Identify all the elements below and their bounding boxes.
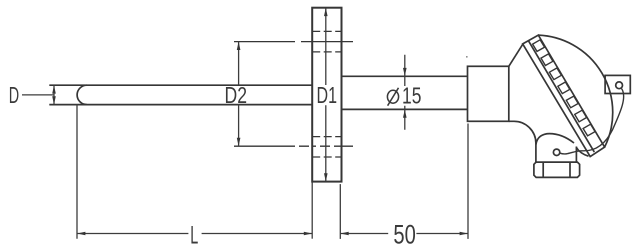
- 50 dimension line: [340, 233, 468, 235]
- svg-text:D2: D2: [225, 82, 248, 108]
- gland nut right flat: [569, 162, 571, 177]
- cap strip (lid) outline: [523, 35, 605, 157]
- bolt hole bottom edge (hidden line, lower hole): [312, 156, 341, 158]
- L extension line (flange left edge): [311, 182, 313, 238]
- neck tube top edge: [342, 75, 468, 77]
- bolt hole centerline (lower): [234, 145, 353, 147]
- arrow D1 bottom: [324, 173, 328, 181]
- outlet shoulder: [536, 134, 574, 145]
- arrow Ø15 top (outside): [403, 68, 407, 76]
- L extension line (probe tip): [76, 104, 78, 239]
- L dimension line: [77, 233, 312, 235]
- diameter symbol Ø: [387, 88, 398, 106]
- head top diagonal: [509, 44, 523, 66]
- outlet screw: [553, 149, 559, 155]
- svg-text:D1: D1: [317, 82, 338, 108]
- arrow D bottom: [52, 96, 56, 104]
- outlet right edge: [575, 147, 577, 163]
- outlet right fillet: [576, 148, 588, 157]
- svg-text:L: L: [190, 222, 198, 250]
- dimension D2 line: [238, 42, 240, 147]
- dimension D line: [53, 85, 55, 104]
- bolt hole centerline (upper): [234, 41, 353, 43]
- bolt hole top edge (hidden line, lower hole): [312, 136, 341, 138]
- cap strip terminal squares: [533, 40, 596, 136]
- tab (lid screw lug): [605, 75, 630, 93]
- arrow D2 bottom: [237, 138, 241, 146]
- probe tube bottom edge (with D extension): [49, 104, 312, 106]
- chain curve: [560, 89, 623, 154]
- 50 extension line (flange right): [339, 184, 341, 239]
- bolt hole bottom edge (hidden line, upper hole): [312, 51, 341, 53]
- head dome: [538, 35, 612, 147]
- probe tube top edge (with D extension): [49, 84, 312, 86]
- head boss: [468, 66, 509, 121]
- arrow 50 right: [460, 232, 468, 236]
- elbow fillet (boss to outlet): [509, 121, 536, 143]
- svg-text:D: D: [9, 82, 19, 108]
- gland nut left flat: [542, 162, 544, 177]
- dimension Ø15 line: [404, 55, 406, 130]
- neck tube bottom edge: [342, 108, 468, 110]
- tab screw: [616, 82, 623, 89]
- probe tube rounded tip: [77, 85, 87, 104]
- bolt hole top edge (hidden line, upper hole): [312, 30, 341, 32]
- outlet left edge: [535, 143, 537, 163]
- arrow L right: [304, 232, 312, 236]
- arrow Ø15 bottom (outside): [403, 109, 407, 117]
- dimension D leader: [22, 94, 54, 96]
- arrow D top: [52, 85, 56, 93]
- arrow D1 top: [324, 8, 328, 16]
- stray mark (artifact in source): [466, 56, 468, 58]
- arrow 50 left: [340, 232, 348, 236]
- svg-text:50: 50: [393, 220, 415, 250]
- svg-text:15: 15: [402, 82, 421, 108]
- dimension D1 line: [325, 8, 327, 182]
- 50 extension line (head left): [467, 124, 469, 239]
- arrow L left: [77, 232, 85, 236]
- gland nut body: [534, 162, 580, 177]
- cap strip divider rail: [528, 41, 594, 152]
- arrow D2 top: [237, 42, 241, 50]
- flange body: [312, 8, 341, 182]
